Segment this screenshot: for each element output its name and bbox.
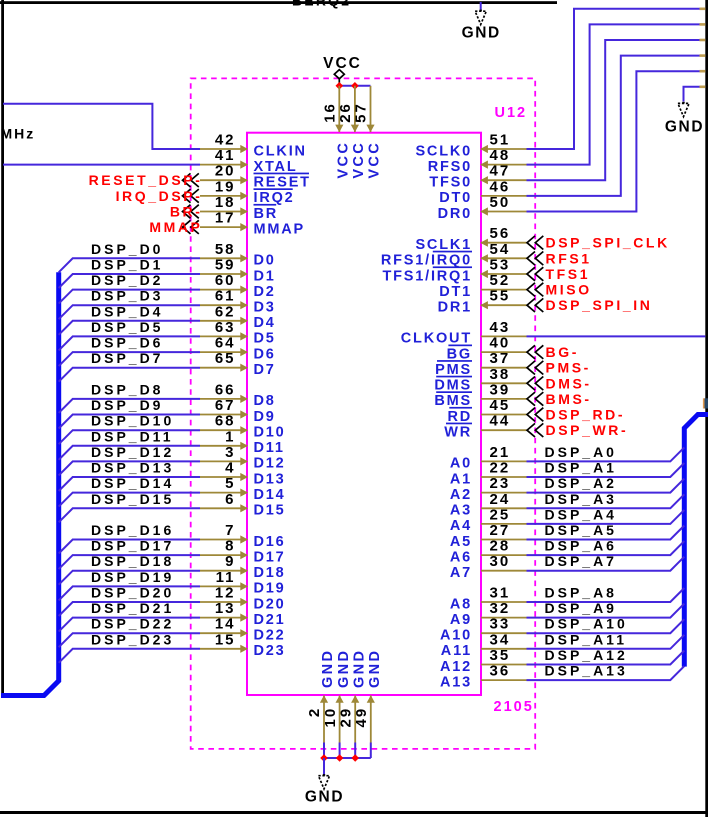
wire GND pin 29 drop xyxy=(354,743,356,759)
wire DSP_D8 from bus xyxy=(59,399,200,413)
pin 30 A7 (right) xyxy=(450,553,527,581)
svg-text:GND: GND xyxy=(305,789,344,806)
svg-text:55: 55 xyxy=(490,288,511,305)
right page border xyxy=(705,0,708,817)
wire DSP_D0 from bus xyxy=(59,258,200,272)
svg-text:DSP_D21: DSP_D21 xyxy=(91,600,174,616)
svg-text:D0: D0 xyxy=(254,253,276,269)
svg-text:D17: D17 xyxy=(254,549,286,565)
svg-text:64: 64 xyxy=(215,335,236,352)
svg-text:51: 51 xyxy=(490,132,511,149)
svg-text:DSP_D3: DSP_D3 xyxy=(91,288,163,304)
wire DSP_A11 to bus xyxy=(527,635,685,649)
svg-text:13: 13 xyxy=(215,600,236,617)
svg-text:D12: D12 xyxy=(254,456,286,472)
wire DSP_D11 from bus xyxy=(59,446,200,460)
svg-text:DSP_A3: DSP_A3 xyxy=(545,491,617,507)
pin 42 CLKIN (left) xyxy=(200,132,307,160)
svg-text:BR: BR xyxy=(254,206,279,222)
svg-text:65: 65 xyxy=(215,350,236,367)
junction dot VCC 2 xyxy=(351,82,359,90)
svg-text:A8: A8 xyxy=(450,596,472,612)
svg-text:DSP_D18: DSP_D18 xyxy=(91,553,174,569)
svg-text:VCC: VCC xyxy=(336,141,352,179)
svg-text:DT1: DT1 xyxy=(439,284,472,300)
wire DR0 to right edge xyxy=(527,71,700,211)
svg-text:5: 5 xyxy=(225,475,235,492)
pin 40 BG (right) xyxy=(447,335,527,363)
svg-text:BMS-: BMS- xyxy=(546,391,592,407)
svg-text:22: 22 xyxy=(490,460,511,477)
wire DSP_D9 from bus xyxy=(59,415,200,429)
svg-text:29: 29 xyxy=(337,707,354,728)
svg-text:25: 25 xyxy=(490,506,511,523)
bus label fragment at right edge xyxy=(703,398,705,408)
bottom page border xyxy=(0,811,708,814)
svg-text:DSP_A13: DSP_A13 xyxy=(545,663,628,679)
svg-text:MMAP: MMAP xyxy=(254,221,306,237)
off-page connector DMS- xyxy=(527,375,592,391)
svg-text:11: 11 xyxy=(216,569,236,586)
svg-text:VCC: VCC xyxy=(351,141,367,179)
svg-text:28: 28 xyxy=(490,538,511,555)
svg-text:9: 9 xyxy=(225,553,235,570)
wire DSP_D12 from bus xyxy=(59,461,200,475)
address bus DSP_A[0..13] vertical bus bar xyxy=(684,415,708,667)
svg-text:DSP_A8: DSP_A8 xyxy=(545,585,617,601)
svg-text:D8: D8 xyxy=(254,393,276,409)
wire DSP_D2 from bus xyxy=(59,290,200,304)
off-page connector DSP_SPI_CLK xyxy=(527,235,670,251)
pin 67 D9 (left) xyxy=(200,397,276,425)
svg-text:63: 63 xyxy=(215,319,236,336)
pin 25 A4 (right) xyxy=(450,506,527,534)
pin 10 GND (bottom) xyxy=(322,649,352,743)
off-page connector DSP_SPI_IN xyxy=(527,297,652,313)
svg-text:DSP_D6: DSP_D6 xyxy=(91,335,163,351)
svg-text:21: 21 xyxy=(490,444,511,461)
svg-text:34: 34 xyxy=(490,631,511,648)
svg-text:A5: A5 xyxy=(450,534,472,550)
svg-text:68: 68 xyxy=(215,413,236,430)
pin 37 PMS (right) xyxy=(435,350,526,378)
svg-text:RFS1: RFS1 xyxy=(546,250,592,266)
wire DSP_D3 from bus xyxy=(59,305,200,319)
pin 3 D12 (left) xyxy=(200,444,286,472)
pin 57 VCC (top) xyxy=(353,86,383,179)
svg-text:48: 48 xyxy=(490,147,511,164)
pin 59 D1 (left) xyxy=(200,257,276,285)
pin 54 RFS1/IRQ0 (right) xyxy=(381,241,527,269)
svg-text:60: 60 xyxy=(215,272,236,289)
svg-text:D4: D4 xyxy=(254,315,276,331)
pin 22 A1 (right) xyxy=(450,460,527,488)
wire DSP_D13 from bus xyxy=(59,477,200,491)
svg-text:RESET_DSP-: RESET_DSP- xyxy=(89,172,203,188)
svg-text:35: 35 xyxy=(490,647,511,664)
off-page connector DSP_RD- xyxy=(527,407,625,423)
svg-text:24: 24 xyxy=(490,491,511,508)
svg-text:DSP_D0: DSP_D0 xyxy=(91,241,163,257)
wire VCC rail xyxy=(339,85,370,87)
svg-text:DSP_D12: DSP_D12 xyxy=(91,444,174,460)
dashed boundary box around U12 xyxy=(191,78,536,749)
svg-text:DSP_D22: DSP_D22 xyxy=(91,616,174,632)
svg-text:D15: D15 xyxy=(254,503,286,519)
svg-text:DSP_SPI_CLK: DSP_SPI_CLK xyxy=(546,235,670,251)
svg-text:50: 50 xyxy=(490,194,511,211)
svg-text:56: 56 xyxy=(490,225,511,242)
svg-text:MHz: MHz xyxy=(1,125,36,141)
wire DSP_D6 from bus xyxy=(59,352,200,366)
pin 11 D19 (left) xyxy=(200,569,286,597)
svg-text:D11: D11 xyxy=(254,440,285,456)
off-page connector PMS- xyxy=(527,360,591,376)
svg-text:RD: RD xyxy=(447,409,472,425)
wire DSP_A7 to bus xyxy=(527,557,685,571)
wire DSP_D18 from bus xyxy=(59,571,200,585)
wire DSP_A10 to bus xyxy=(527,619,685,633)
wire DSP_A8 to bus xyxy=(527,588,685,602)
svg-text:47: 47 xyxy=(490,163,511,180)
pin 33 A10 (right) xyxy=(440,616,527,644)
pin 9 D18 (left) xyxy=(200,553,286,581)
wire DSP_A4 to bus xyxy=(527,510,685,524)
svg-text:DMS: DMS xyxy=(434,378,472,394)
svg-text:40: 40 xyxy=(490,335,511,352)
wire to GND (right) xyxy=(684,87,700,102)
svg-text:D18: D18 xyxy=(254,565,286,581)
svg-text:44: 44 xyxy=(490,413,511,430)
svg-text:58: 58 xyxy=(215,241,236,258)
svg-text:43: 43 xyxy=(490,319,511,336)
wire CLKOUT to right edge xyxy=(527,335,706,337)
svg-text:20: 20 xyxy=(215,163,236,180)
svg-text:SCLK1: SCLK1 xyxy=(415,237,472,253)
svg-text:GND: GND xyxy=(351,649,367,688)
svg-text:DSP_A7: DSP_A7 xyxy=(545,553,617,569)
svg-text:DSP_SPI_IN: DSP_SPI_IN xyxy=(546,297,653,313)
svg-text:DSP_WR-: DSP_WR- xyxy=(546,422,629,438)
svg-text:DT0: DT0 xyxy=(439,190,472,206)
svg-text:DSP_D11: DSP_D11 xyxy=(91,428,173,444)
svg-text:14: 14 xyxy=(215,616,236,633)
pin 62 D4 (left) xyxy=(200,303,276,331)
wire DSP_D7 from bus xyxy=(59,368,200,382)
svg-text:66: 66 xyxy=(215,381,236,398)
svg-text:DSP_A2: DSP_A2 xyxy=(545,475,617,491)
wire XTAL from oscillator xyxy=(3,164,200,166)
pin 45 RD (right) xyxy=(447,397,526,425)
junction dot GND 340 xyxy=(336,754,344,762)
svg-text:DSP_A9: DSP_A9 xyxy=(545,600,617,616)
svg-text:A11: A11 xyxy=(441,643,472,659)
svg-text:42: 42 xyxy=(215,132,236,149)
svg-text:18: 18 xyxy=(215,194,236,211)
svg-text:A4: A4 xyxy=(450,518,472,534)
wire GND pin 49 drop xyxy=(370,743,372,759)
svg-text:DSP_A1: DSP_A1 xyxy=(545,460,617,476)
svg-text:1: 1 xyxy=(225,428,235,445)
pin 21 A0 (right) xyxy=(450,444,527,472)
svg-text:57: 57 xyxy=(353,102,370,123)
pin 8 D17 (left) xyxy=(200,538,286,566)
svg-text:DSP_D17: DSP_D17 xyxy=(91,538,174,554)
svg-text:D13: D13 xyxy=(254,471,286,487)
wire SCLK0 to right edge xyxy=(527,9,700,149)
svg-text:DSP_D5: DSP_D5 xyxy=(91,319,163,335)
svg-text:RESET: RESET xyxy=(254,175,311,191)
svg-text:49: 49 xyxy=(353,707,370,728)
pin 15 D23 (left) xyxy=(200,631,286,659)
svg-text:DSP_A10: DSP_A10 xyxy=(545,616,628,632)
off-page stub DT0 xyxy=(700,54,706,57)
pin 58 D0 (left) xyxy=(200,241,276,269)
pin 7 D16 (left) xyxy=(200,522,286,550)
svg-text:38: 38 xyxy=(490,366,511,383)
svg-text:DMS-: DMS- xyxy=(546,375,592,391)
top page border xyxy=(0,1,557,4)
pin 17 MMAP (left) xyxy=(200,210,305,238)
pin 31 A8 (right) xyxy=(450,585,527,613)
svg-text:DSP_A11: DSP_A11 xyxy=(545,631,627,647)
off-page connector BG- xyxy=(527,344,579,360)
pin 12 D20 (left) xyxy=(200,585,286,613)
svg-text:D7: D7 xyxy=(254,362,276,378)
ground symbol (top right) xyxy=(665,102,704,136)
svg-text:U12: U12 xyxy=(495,105,528,121)
svg-text:DSP_A5: DSP_A5 xyxy=(545,522,617,538)
wire DSP_A1 to bus xyxy=(527,463,685,477)
svg-text:30: 30 xyxy=(490,553,511,570)
off-page connector DSP_WR- xyxy=(527,422,628,438)
pin 49 GND (bottom) xyxy=(353,649,383,743)
svg-text:DSP_D2: DSP_D2 xyxy=(91,272,163,288)
wire DSP_A12 to bus xyxy=(527,651,685,665)
pin 18 BR (left) xyxy=(200,194,278,222)
svg-text:DSP_D1: DSP_D1 xyxy=(91,257,163,273)
svg-text:D21: D21 xyxy=(254,612,286,628)
svg-text:27: 27 xyxy=(490,522,511,539)
svg-text:A0: A0 xyxy=(450,456,472,472)
svg-text:TFS1/IRQ1: TFS1/IRQ1 xyxy=(382,268,472,284)
pin 63 D5 (left) xyxy=(200,319,276,347)
off-page stub GND (right) xyxy=(700,86,706,89)
svg-text:52: 52 xyxy=(490,272,511,289)
svg-text:DSP_D19: DSP_D19 xyxy=(91,569,174,585)
svg-text:D19: D19 xyxy=(254,581,286,597)
pin 61 D3 (left) xyxy=(200,288,276,316)
pin 38 DMS (right) xyxy=(434,366,526,394)
svg-text:GND: GND xyxy=(336,649,352,688)
off-page connector BR- xyxy=(170,204,203,220)
svg-text:A1: A1 xyxy=(450,471,472,487)
left page border xyxy=(1,0,4,695)
svg-text:17: 17 xyxy=(215,210,236,227)
pin 26 VCC (top) xyxy=(337,86,367,179)
wire GND pin 2 drop xyxy=(323,743,325,759)
svg-text:RFS0: RFS0 xyxy=(428,159,472,175)
off-page connector MMAP xyxy=(149,219,202,235)
wire DSP_D14 from bus xyxy=(59,493,200,507)
wire to ground symbol (bottom) xyxy=(323,758,325,775)
junction dot VCC 1 xyxy=(336,82,344,90)
op-amp/IC U12 body (ADSP-2105) xyxy=(247,133,481,695)
pin 28 A6 (right) xyxy=(450,538,527,566)
svg-text:DSP_A4: DSP_A4 xyxy=(545,506,617,522)
pin 19 IRQ2 (left) xyxy=(200,178,295,206)
svg-text:12: 12 xyxy=(215,585,236,602)
svg-text:DSP_D13: DSP_D13 xyxy=(91,460,174,476)
svg-text:BG: BG xyxy=(447,346,472,362)
wire DSP_A13 to bus xyxy=(527,666,685,680)
power symbol VCC xyxy=(323,55,362,84)
svg-text:WR: WR xyxy=(444,425,472,441)
svg-text:A13: A13 xyxy=(440,674,472,690)
svg-text:2105: 2105 xyxy=(494,699,534,715)
svg-text:67: 67 xyxy=(215,397,236,414)
svg-text:D22: D22 xyxy=(254,628,286,644)
svg-text:D5: D5 xyxy=(254,331,276,347)
svg-text:8: 8 xyxy=(225,538,235,555)
svg-text:DSP_A0: DSP_A0 xyxy=(545,444,617,460)
pin 50 DR0 (right) xyxy=(438,194,527,222)
pin 2 GND (bottom) xyxy=(306,649,336,743)
svg-text:DSP_D9: DSP_D9 xyxy=(91,397,163,413)
pin 41 XTAL (left) xyxy=(200,147,297,175)
svg-text:DSP_D20: DSP_D20 xyxy=(91,585,174,601)
svg-text:TFS0: TFS0 xyxy=(429,175,472,191)
pin 20 RESET (left) xyxy=(200,163,311,191)
svg-text:D2: D2 xyxy=(254,284,276,300)
svg-text:23: 23 xyxy=(490,475,511,492)
svg-text:31: 31 xyxy=(490,585,511,602)
svg-text:MISO: MISO xyxy=(546,282,592,298)
pin 52 DT1 (right) xyxy=(439,272,526,300)
svg-text:GND: GND xyxy=(462,24,501,41)
svg-text:XTAL: XTAL xyxy=(254,159,298,175)
wire DSP_D16 from bus xyxy=(59,540,200,554)
svg-text:2: 2 xyxy=(306,707,323,717)
svg-text:GND: GND xyxy=(665,119,704,136)
pin 65 D7 (left) xyxy=(200,350,276,378)
wire DSP_D4 from bus xyxy=(59,321,200,335)
svg-text:DSP_D23: DSP_D23 xyxy=(91,631,174,647)
svg-text:DSP_D14: DSP_D14 xyxy=(91,475,174,491)
pin 35 A12 (right) xyxy=(440,647,527,675)
svg-text:15: 15 xyxy=(215,631,236,648)
svg-text:TFS1: TFS1 xyxy=(546,266,591,282)
pin 36 A13 (right) xyxy=(440,663,527,691)
svg-text:D23: D23 xyxy=(254,643,286,659)
svg-text:CLKIN: CLKIN xyxy=(254,143,307,159)
svg-text:SCLK0: SCLK0 xyxy=(415,143,472,159)
svg-text:PMS-: PMS- xyxy=(546,360,591,376)
svg-text:D1: D1 xyxy=(254,268,276,284)
svg-text:DR1: DR1 xyxy=(438,300,472,316)
svg-text:10: 10 xyxy=(322,707,339,728)
pin 4 D13 (left) xyxy=(200,460,286,488)
svg-text:PMS: PMS xyxy=(435,362,472,378)
pin 68 D10 (left) xyxy=(200,413,286,441)
svg-text:BMS: BMS xyxy=(434,393,472,409)
off-page connector RESET_DSP- xyxy=(89,172,203,188)
off-page connector MISO xyxy=(527,282,592,298)
wire GND rail (bottom) xyxy=(324,757,371,759)
svg-text:VCC: VCC xyxy=(367,141,383,179)
pin 44 WR (right) xyxy=(444,413,526,441)
svg-text:DSP_A6: DSP_A6 xyxy=(545,538,617,554)
wire DSP_A2 to bus xyxy=(527,479,685,493)
wire GND pin 10 drop xyxy=(339,743,341,759)
pin 27 A5 (right) xyxy=(450,522,527,550)
pin 51 SCLK0 (right) xyxy=(415,132,526,160)
pin 5 D14 (left) xyxy=(200,475,286,503)
off-page connector RFS1 xyxy=(527,250,592,266)
svg-text:A9: A9 xyxy=(450,612,472,628)
pin 1 D11 (left) xyxy=(200,428,285,456)
pin 53 TFS1/IRQ1 (right) xyxy=(382,257,526,285)
wire DT0 to right edge xyxy=(527,56,700,196)
svg-text:CLKOUT: CLKOUT xyxy=(401,331,472,347)
svg-text:DR0: DR0 xyxy=(438,206,472,222)
wire DSP_A6 to bus xyxy=(527,541,685,555)
wire DSP_D19 from bus xyxy=(59,586,200,600)
off-page connector TFS1 xyxy=(527,266,590,282)
pin 34 A11 (right) xyxy=(441,631,527,659)
pin 55 DR1 (right) xyxy=(438,288,527,316)
junction dot GND 324 xyxy=(320,754,328,762)
svg-text:32: 32 xyxy=(490,600,511,617)
svg-text:A7: A7 xyxy=(450,565,472,581)
svg-text:D6: D6 xyxy=(254,346,276,362)
svg-text:DSP_D15: DSP_D15 xyxy=(91,491,174,507)
pin 39 BMS (right) xyxy=(434,381,526,409)
svg-text:3: 3 xyxy=(225,444,235,461)
wire BERQ2 to ground xyxy=(480,2,482,10)
svg-text:DSP_D4: DSP_D4 xyxy=(91,303,163,319)
pin 14 D22 (left) xyxy=(200,616,286,644)
svg-text:26: 26 xyxy=(337,102,354,123)
svg-text:A2: A2 xyxy=(450,487,472,503)
ground symbol (top) xyxy=(462,10,501,42)
wire DSP_A9 to bus xyxy=(527,604,685,618)
off-page stub DR0 xyxy=(700,70,706,73)
pin 16 VCC (top) xyxy=(322,86,352,179)
svg-text:A10: A10 xyxy=(440,628,472,644)
svg-text:39: 39 xyxy=(490,381,511,398)
ground symbol (bottom) xyxy=(305,774,344,806)
svg-text:BG-: BG- xyxy=(546,344,579,360)
wire DSP_D1 from bus xyxy=(59,274,200,288)
svg-text:46: 46 xyxy=(490,178,511,195)
svg-text:62: 62 xyxy=(215,303,236,320)
svg-text:MMAP: MMAP xyxy=(149,219,202,235)
wire DSP_A0 to bus xyxy=(527,447,685,461)
wire DSP_D20 from bus xyxy=(59,602,200,616)
off-page stub RFS0 xyxy=(700,23,706,26)
pin 13 D21 (left) xyxy=(200,600,286,628)
pin 64 D6 (left) xyxy=(200,335,276,363)
svg-text:GND: GND xyxy=(367,649,383,688)
svg-text:IRQ2: IRQ2 xyxy=(254,190,295,206)
svg-text:A3: A3 xyxy=(450,503,472,519)
svg-text:59: 59 xyxy=(215,257,236,274)
wire TFS0 to right edge xyxy=(527,40,700,180)
pin 43 CLKOUT (right) xyxy=(401,319,527,347)
off-page connector IRQ_DSP- xyxy=(116,188,203,204)
wire DSP_D23 from bus xyxy=(59,649,200,663)
